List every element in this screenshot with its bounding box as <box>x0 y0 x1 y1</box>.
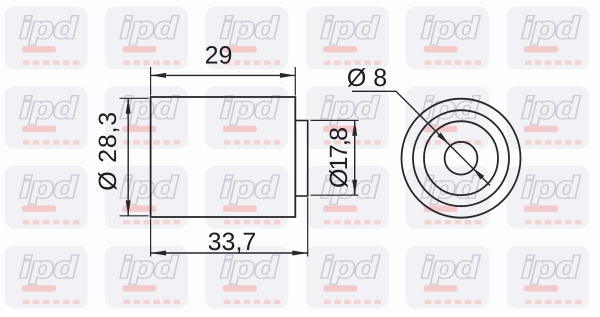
hub protrusion rectangle <box>295 121 307 197</box>
front view outer circle <box>402 99 521 218</box>
dimension Ø17,8 line <box>352 120 357 195</box>
dimension Ø 28,3 line <box>126 98 131 216</box>
Ø 8 leader line <box>352 91 490 185</box>
Ø 8 leader arrowheads <box>437 133 484 180</box>
dimension 33,7 line <box>151 251 308 256</box>
svg-text:33,7: 33,7 <box>208 228 257 256</box>
Ø 8 label <box>347 64 387 92</box>
front view third circle <box>424 121 498 195</box>
dimension Ø17,8 extension lines <box>311 120 359 195</box>
dimension Ø 28,3 extension lines <box>120 98 149 216</box>
dimension 29 extension lines <box>151 67 296 96</box>
dimension Ø 28,3 label <box>94 112 122 191</box>
dimension 33,7 label <box>208 228 257 256</box>
svg-text:29: 29 <box>205 42 233 70</box>
dimension Ø17,8 label <box>325 127 353 188</box>
svg-text:Ø 8: Ø 8 <box>347 64 387 92</box>
dimension 29 line <box>151 73 296 78</box>
svg-text:Ø17,8: Ø17,8 <box>325 127 353 188</box>
front view bore circle <box>445 142 478 175</box>
svg-text:Ø 28,3: Ø 28,3 <box>94 112 122 191</box>
dimension 33,7 extension lines <box>151 198 308 257</box>
side view body rectangle <box>151 97 296 217</box>
dimension 29 label <box>205 42 233 70</box>
front view second circle <box>413 110 509 206</box>
